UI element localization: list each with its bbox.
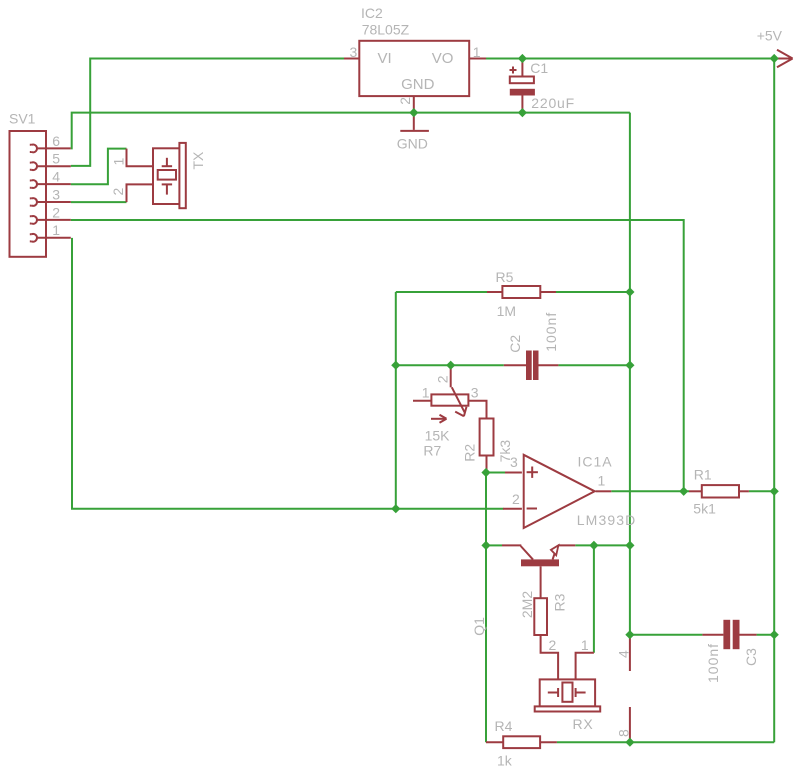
svg-text:SV1: SV1 — [9, 110, 36, 126]
node Q1 emitter — [589, 541, 598, 550]
svg-text:C2: C2 — [507, 335, 523, 353]
svg-text:R7: R7 — [423, 442, 441, 458]
svg-text:IC1A: IC1A — [578, 453, 613, 469]
wire middle vertical rail — [629, 113, 631, 635]
node emitter rail — [625, 541, 634, 550]
node C2 left — [391, 361, 400, 370]
pin RX-8 stub — [629, 707, 631, 742]
pin IC2-2 GND — [413, 96, 415, 113]
svg-text:5: 5 — [52, 151, 60, 167]
wire C3 left — [630, 634, 703, 636]
svg-text:VO: VO — [432, 50, 454, 67]
wire R5 right — [556, 291, 630, 293]
svg-text:78L05Z: 78L05Z — [362, 22, 410, 38]
supply +5V arrow — [774, 58, 792, 60]
ground symbol — [413, 113, 415, 130]
wire SV1 pin2 long — [71, 220, 684, 491]
pin TX-1 — [127, 149, 154, 167]
svg-text:Q1: Q1 — [471, 617, 487, 636]
crystal inside RX — [548, 692, 558, 694]
svg-text:1: 1 — [422, 384, 430, 400]
pin SV1-6 — [30, 145, 37, 153]
svg-text:15K: 15K — [425, 427, 451, 443]
node RX pin8 — [625, 738, 634, 747]
node IC2 GND — [409, 108, 418, 117]
wire VO output to +5V — [486, 58, 774, 60]
node R2 bottom — [481, 468, 490, 477]
capacitor C3 — [702, 634, 723, 636]
svg-text:3: 3 — [510, 454, 518, 470]
node feedback T — [391, 504, 400, 513]
wire SV1 pin1 to opamp inverting — [72, 238, 504, 509]
svg-text:5k1: 5k1 — [693, 500, 716, 516]
pin TX-2 — [127, 184, 154, 202]
node C3 left — [625, 630, 634, 639]
svg-text:1M: 1M — [497, 303, 516, 319]
svg-text:GND: GND — [397, 136, 428, 152]
svg-text:C1: C1 — [530, 60, 548, 76]
pin RX-4 stub — [629, 636, 631, 671]
node R5 right — [625, 287, 634, 296]
plus sign — [527, 471, 538, 473]
node C2 right — [625, 361, 634, 370]
wire Q1 collector vertical — [485, 473, 487, 743]
svg-text:+5V: +5V — [757, 27, 783, 43]
transmitter module TX — [153, 148, 180, 204]
wire R4 right bottom rail — [557, 741, 774, 743]
pin SV1-5 — [30, 162, 37, 170]
wire C3 right — [757, 634, 775, 636]
svg-text:2: 2 — [434, 375, 450, 383]
svg-text:4: 4 — [52, 169, 60, 185]
pin IC2-3 VI — [344, 58, 359, 60]
svg-text:4: 4 — [616, 650, 632, 658]
wire SV1 pin4 to TX pin1 — [71, 149, 127, 185]
regulator IC2 box — [359, 41, 469, 96]
svg-text:GND: GND — [401, 76, 435, 93]
node Q1 collector — [481, 541, 490, 550]
svg-text:C3: C3 — [743, 648, 759, 666]
pin IC1A-3 — [505, 472, 522, 474]
pin IC1A-1 output — [596, 490, 612, 492]
node +5V — [770, 54, 779, 63]
pin SV1-2 — [30, 216, 37, 224]
svg-text:TX: TX — [190, 151, 206, 170]
pin RX-1 — [576, 653, 594, 680]
pin SV1-3 — [30, 198, 37, 206]
wire opamp output — [611, 490, 689, 492]
svg-text:6: 6 — [52, 133, 60, 149]
wire C2 right — [558, 364, 630, 366]
resistor R3 — [540, 566, 542, 598]
node C1 top — [518, 54, 527, 63]
wire R5 left — [396, 291, 487, 293]
capacitor C1 polarized — [521, 59, 523, 77]
node C3 right — [770, 630, 779, 639]
svg-text:1: 1 — [581, 637, 589, 653]
svg-text:R3: R3 — [551, 593, 567, 611]
node R7 wiper — [446, 361, 455, 370]
svg-text:3: 3 — [52, 186, 60, 202]
wire VI input top — [71, 59, 344, 166]
svg-text:2M2: 2M2 — [519, 591, 535, 618]
connector SV1 — [10, 131, 47, 257]
wire SV1 pin3 to TX pin2 — [71, 201, 127, 203]
svg-text:1: 1 — [473, 44, 481, 60]
svg-text:R5: R5 — [496, 269, 514, 285]
receiver module RX — [540, 679, 595, 706]
trimmer arrow R7 — [431, 418, 447, 420]
minus sign — [527, 508, 537, 510]
pin SV1-4 — [30, 180, 37, 188]
transistor Q1 — [502, 544, 521, 546]
svg-text:R1: R1 — [694, 466, 712, 482]
svg-text:LM393D: LM393D — [577, 512, 637, 528]
potentiometer R7 — [413, 400, 431, 402]
wire C2 left — [396, 364, 504, 366]
wire R2 to opamp noninverting — [486, 472, 505, 474]
svg-text:2: 2 — [397, 97, 413, 105]
node C1 bottom — [518, 108, 527, 117]
node output riser — [679, 487, 688, 496]
svg-text:VI: VI — [378, 50, 392, 67]
svg-text:IC2: IC2 — [361, 5, 383, 21]
svg-text:1: 1 — [52, 222, 60, 238]
svg-text:8: 8 — [616, 729, 632, 737]
svg-text:220uF: 220uF — [531, 95, 575, 111]
wire Q1 collector stub — [486, 544, 502, 546]
node R1 right — [770, 487, 779, 496]
wire left feedback vertical — [395, 292, 397, 509]
wire Q1 emitter net — [575, 544, 630, 546]
pin IC1A-2 — [503, 508, 522, 510]
svg-text:2: 2 — [549, 637, 557, 653]
capacitor C2 — [504, 364, 526, 366]
resistor R5 — [487, 291, 502, 293]
resistor R2 — [468, 401, 486, 419]
op-amp IC1A — [524, 455, 595, 528]
svg-text:3: 3 — [350, 44, 358, 60]
wire GND rail top — [71, 113, 630, 149]
svg-text:1: 1 — [598, 473, 606, 489]
wire R1 right — [749, 490, 774, 492]
pin IC2-1 VO — [469, 58, 486, 60]
svg-text:1k: 1k — [497, 753, 513, 769]
pin SV1-1 — [30, 234, 37, 242]
svg-text:2: 2 — [110, 188, 126, 196]
svg-text:2: 2 — [512, 491, 520, 507]
svg-text:RX: RX — [573, 716, 594, 732]
svg-text:2: 2 — [52, 204, 60, 220]
svg-text:3: 3 — [471, 384, 479, 400]
svg-text:R2: R2 — [462, 444, 478, 462]
svg-text:100nf: 100nf — [705, 643, 721, 683]
resistor R1 — [689, 490, 702, 492]
svg-text:1: 1 — [111, 158, 127, 166]
crystal inside TX — [166, 158, 168, 166]
wire right vertical rail — [773, 59, 775, 743]
resistor R4 — [486, 741, 503, 743]
svg-text:R4: R4 — [495, 718, 513, 734]
svg-text:100nf: 100nf — [543, 312, 559, 352]
wire RX pin1 riser — [593, 545, 595, 652]
